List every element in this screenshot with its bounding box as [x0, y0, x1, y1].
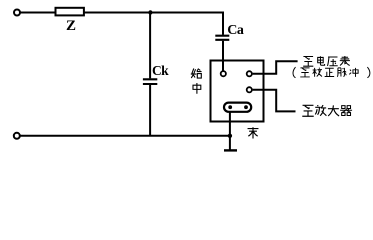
wire: top horizontal from input terminal to Ca corner	[20, 12, 224, 14]
wire: bottom rail	[20, 135, 230, 137]
wire: amplifier tap out (down then right)	[253, 90, 296, 112]
terminal circle to voltmeter (right top)	[247, 71, 252, 76]
wire: Ca vertical drop from top rail	[222, 12, 224, 35]
capacitor Ca	[215, 36, 229, 40]
label 中	[193, 83, 201, 94]
terminal (top-left input)	[14, 10, 20, 16]
capacitor Ck	[143, 79, 157, 84]
wire: 末 tap vertical down through bottom rail to end bar	[229, 109, 231, 150]
terminal circle 始 (left, fed by Ca)	[221, 71, 226, 76]
node: junction of Z wire and Ck branch	[148, 10, 152, 14]
label 至放大器 (to amplifier)	[302, 105, 352, 116]
terminal (bottom-left input)	[14, 133, 20, 139]
svg-text:Ca: Ca	[227, 23, 244, 38]
wire: Ck lower vertical segment to bottom rail	[149, 85, 151, 136]
terminal circle to amplifier (right lower)	[247, 87, 252, 92]
wire: Ck upper vertical segment	[149, 13, 151, 79]
resistor Z	[56, 8, 84, 16]
label 至电压表 (to voltmeter)	[303, 56, 350, 66]
wire: voltmeter tap out (up then right)	[253, 61, 298, 74]
wire: Ca to tap-changer box terminal	[222, 41, 224, 71]
label （至校正脉冲） (to calibration pulse)	[293, 67, 370, 78]
pin dot left in slot	[228, 105, 232, 109]
node: junction of bottom rail and 末 drop	[228, 134, 232, 138]
pin dot right in slot	[244, 105, 248, 109]
end bar (termination of 末 lead)	[224, 149, 237, 151]
svg-text:Z: Z	[66, 18, 76, 34]
svg-text:Ck: Ck	[152, 63, 169, 78]
tap selector box U1	[211, 61, 264, 122]
label 始	[191, 69, 202, 79]
terminal slot (stadium) inside box	[224, 103, 251, 112]
label 末	[248, 127, 259, 138]
